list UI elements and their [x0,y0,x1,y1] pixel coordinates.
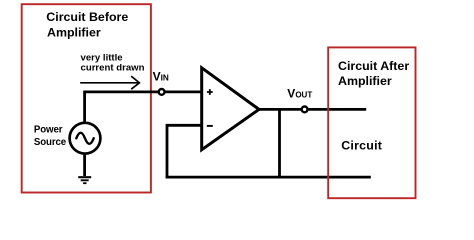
node VOUT (open circle) [302,107,308,113]
wire: power source top to VIN node and op-amp + input [85,92,202,123]
wire: op-amp output to VOUT node and circuit after [258,108,366,111]
label "Circuit" [341,139,382,153]
label "Circuit Before Amplifier" [46,10,128,40]
label "Power Source" [34,125,67,148]
wire: bottom rail [166,176,371,179]
right enclosure box (red): Circuit After Amplifier [328,47,415,198]
wire: inverting input to feedback [167,124,202,127]
arrow: current direction [80,76,139,89]
node VIN (open circle) [159,89,165,95]
left enclosure box (red): Circuit Before Amplifier [22,4,151,192]
svg-text:Amplifier: Amplifier [47,25,101,39]
svg-text:Amplifier: Amplifier [338,74,392,88]
op-amp + pin mark [207,89,213,95]
label "Circuit After Amplifier" [338,59,409,88]
svg-text:Circuit Before: Circuit Before [46,10,128,24]
label "very little current drawn" [81,53,145,74]
svg-text:current drawn: current drawn [81,63,145,74]
svg-text:Circuit: Circuit [341,139,382,153]
svg-text:Source: Source [34,137,67,148]
ground [78,177,91,183]
power source AC symbol [70,123,101,154]
label VIN [153,69,169,83]
svg-text:VIN: VIN [153,69,169,83]
label VOUT [287,87,312,101]
svg-text:VOUT: VOUT [287,87,312,101]
svg-text:Power: Power [34,125,63,136]
op-amp U1 [202,68,259,150]
svg-text:Circuit After: Circuit After [338,59,409,73]
wire: power source bottom to ground [83,154,86,177]
wire: output feedback vertical [278,109,281,177]
op-amp - pin mark [207,125,213,127]
wire: feedback left vertical [166,124,169,177]
